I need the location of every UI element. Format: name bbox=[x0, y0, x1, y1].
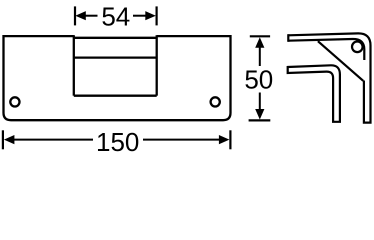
dim150 left arrow bbox=[4, 135, 93, 144]
recess left edge bbox=[73, 35, 75, 95]
recess mid line bbox=[74, 56, 157, 58]
screw hole right bbox=[211, 97, 220, 106]
dim50 top tick bbox=[250, 35, 270, 37]
svg-text:150: 150 bbox=[96, 127, 139, 156]
bracket icon back flange inner edge bbox=[288, 39, 364, 60]
dim54 left tick bbox=[74, 6, 76, 25]
screw hole left bbox=[10, 97, 19, 106]
dim150 left tick bbox=[2, 130, 4, 149]
dim150 right tick bbox=[229, 130, 231, 149]
dim50 bottom tick bbox=[249, 119, 271, 121]
recess right edge bbox=[156, 35, 158, 95]
dim54 left arrow bbox=[75, 11, 97, 20]
dim50 up arrow bbox=[255, 37, 264, 66]
recess bottom line bbox=[74, 95, 157, 97]
svg-text:50: 50 bbox=[244, 64, 273, 94]
bracket icon back flange outer edge bbox=[288, 33, 370, 122]
dim54 right arrow bbox=[133, 11, 156, 20]
plate outline bbox=[4, 36, 231, 120]
svg-text:54: 54 bbox=[101, 2, 130, 32]
recess top step line bbox=[74, 37, 157, 39]
dim54 right tick bbox=[156, 6, 158, 25]
bracket icon front flange bbox=[288, 65, 340, 122]
bracket icon back flange left end cap bbox=[287, 34, 289, 42]
bracket icon diagonal fold edge bbox=[318, 41, 363, 81]
dim50 down arrow bbox=[255, 93, 264, 120]
bracket icon hole bbox=[352, 42, 363, 53]
dim150 right arrow bbox=[143, 135, 229, 144]
